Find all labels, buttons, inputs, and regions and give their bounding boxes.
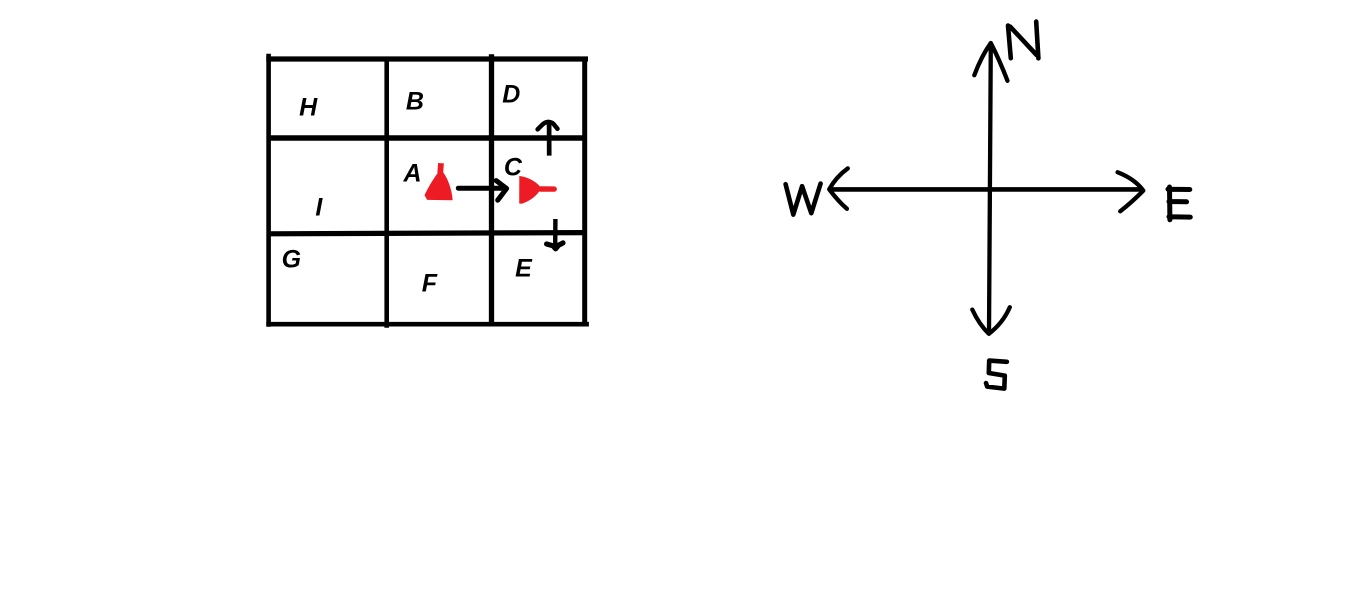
grid horizontal line H2 [267,135,588,141]
svg-text:H: H [299,94,318,122]
svg-text:E: E [515,255,533,283]
svg-text:B: B [406,88,424,116]
black down arrow tip blob [551,245,561,251]
black down arrow shaft at C/E boundary [553,219,558,247]
compass east arrowhead [1118,172,1144,211]
compass vertical line N-S [989,44,991,333]
red marker stem in cell A [437,163,444,173]
grid horizontal line H1 (top border) [266,56,588,61]
black arrow A to C shaft [458,186,503,191]
grid vertical line V2 [384,57,389,328]
black down arrow head [547,243,563,249]
red marker triangle in cell A [425,171,453,201]
black up arrow shaft at D/C boundary [547,123,552,156]
compass west arrowhead [829,168,848,208]
compass south arrowhead [972,307,1010,334]
compass label W [786,184,821,215]
compass label E [1168,187,1190,220]
svg-text:F: F [422,270,438,298]
compass label S [986,361,1007,389]
grid vertical line V4 (right border) [582,57,587,327]
black arrow A to C head [496,181,506,201]
compass north arrowhead [974,43,1007,81]
grid vertical line V3 [489,54,494,325]
black up arrow head [538,122,558,129]
grid vertical line V1 (left border) [266,54,271,327]
svg-text:A: A [402,159,421,187]
grid horizontal line H4 (bottom border) [266,322,589,327]
svg-text:D: D [502,81,520,109]
grid horizontal line H3 [267,233,587,234]
svg-text:G: G [282,246,301,274]
red marker triangle in cell C [519,176,541,204]
compass horizontal line W-E [831,187,1143,192]
svg-text:I: I [315,194,323,222]
compass label N [1008,22,1038,59]
red marker stem in cell C [541,186,555,192]
